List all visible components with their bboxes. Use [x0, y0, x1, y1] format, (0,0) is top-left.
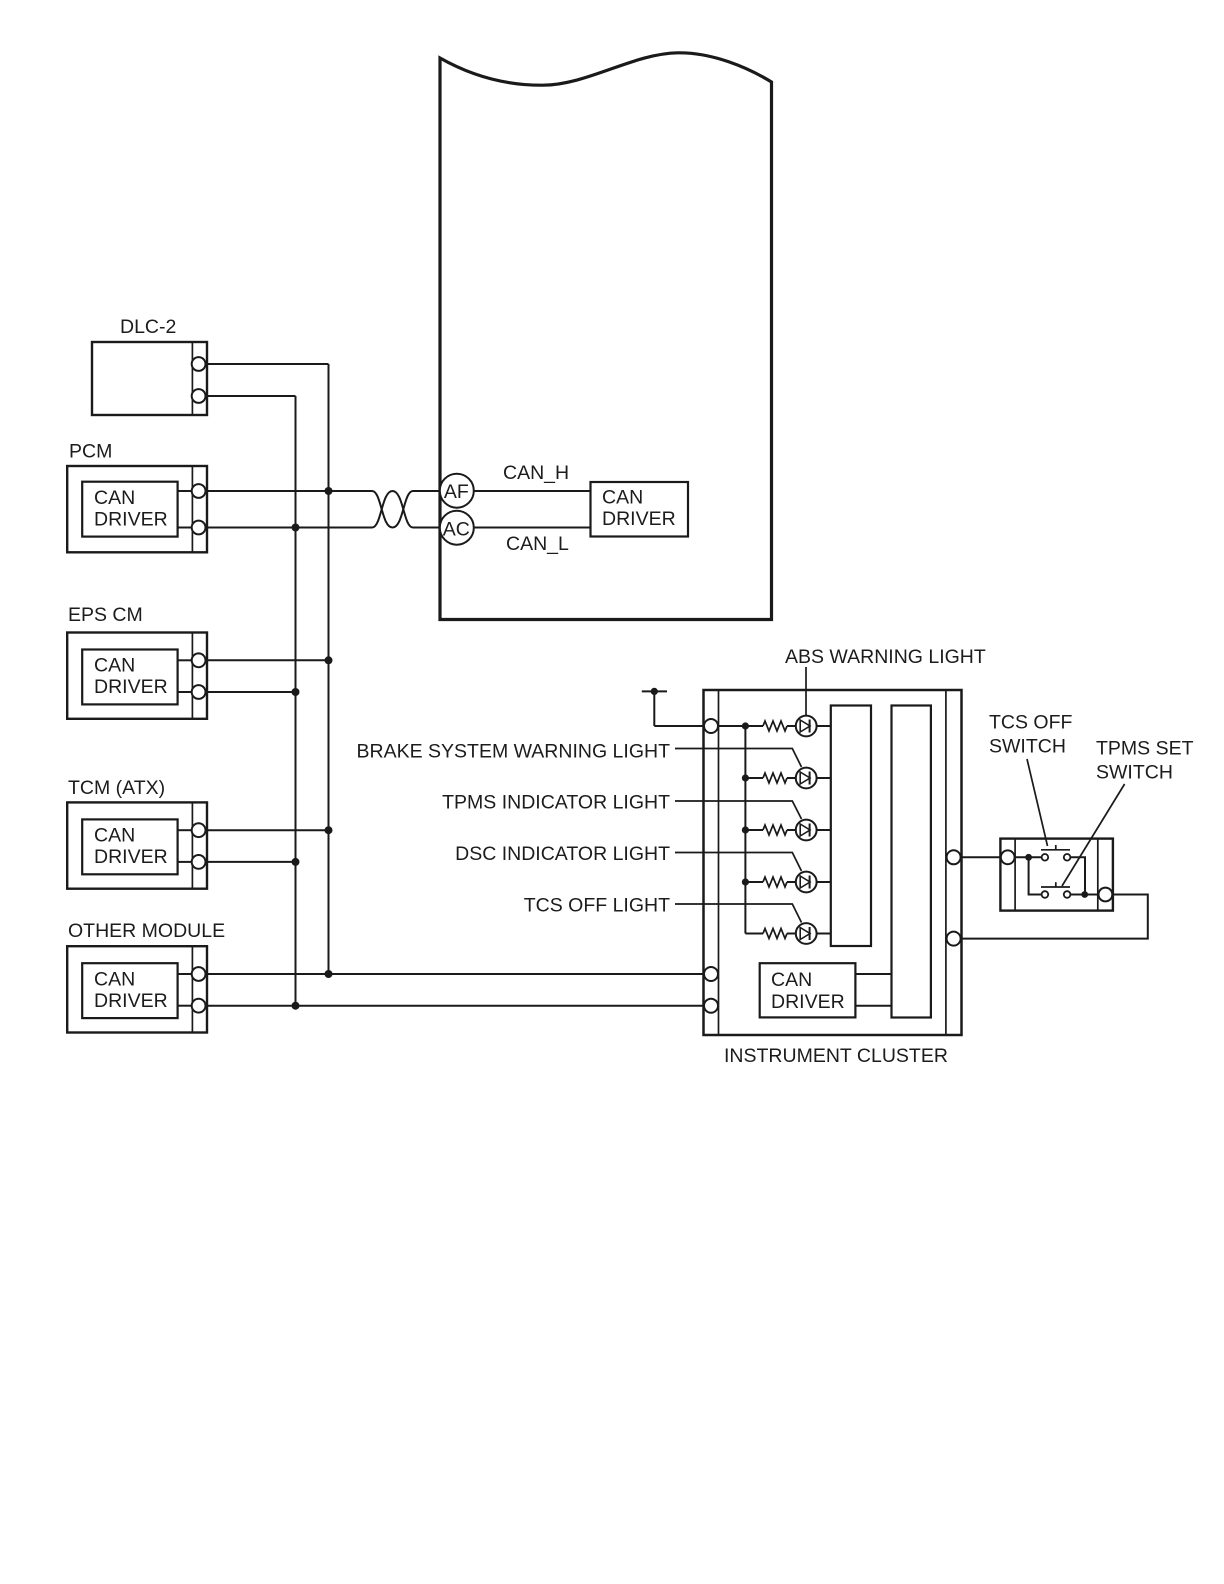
branch wire TCS OFF [745, 933, 763, 935]
LED brake system warning light [787, 768, 831, 789]
svg-text:SWITCH: SWITCH [989, 736, 1066, 758]
resistor (DSC) [763, 877, 787, 887]
svg-text:DSC INDICATOR LIGHT: DSC INDICATOR LIGHT [455, 843, 670, 865]
svg-text:DRIVER: DRIVER [94, 676, 168, 698]
TCS/TPMS switch box [1000, 839, 1113, 911]
instrument cluster box [704, 690, 962, 1035]
terminal AC [440, 511, 474, 545]
svg-text:CAN_H: CAN_H [503, 462, 569, 484]
svg-text:DRIVER: DRIVER [94, 846, 168, 868]
wire OTHER MODULE CAN_H to instrument cluster [206, 973, 761, 975]
wire TCM to CAN_L bus [206, 861, 296, 863]
switch box connector circle right [1099, 888, 1113, 902]
switch box connector circle left [1001, 850, 1015, 864]
DLC-2 connector box [92, 342, 207, 415]
resistor (ABS) [763, 721, 787, 731]
wire left dot down to TPMS switch [1029, 857, 1042, 894]
display panel rect 2 [892, 706, 931, 1018]
junction: CAN_L bus / PCM row [292, 524, 300, 532]
leader TCS OFF SWITCH [1027, 759, 1048, 846]
LED TPMS indicator light [787, 820, 831, 841]
PCM module [67, 466, 207, 552]
CAN_L bus vertical wire [295, 396, 297, 1006]
svg-text:DRIVER: DRIVER [94, 990, 168, 1012]
lamp bus vertical wire [744, 726, 746, 934]
junction on lamp bus (TPMS) [742, 826, 749, 833]
branch wire DSC [745, 881, 763, 883]
TCS OFF switch [1041, 845, 1070, 861]
svg-text:EPS CM: EPS CM [68, 604, 143, 626]
junction right (switch box) [1081, 891, 1088, 898]
svg-text:AF: AF [444, 481, 469, 503]
svg-text:CAN: CAN [94, 969, 135, 991]
wire DLC-2 pin1 to CAN_H bus [206, 363, 329, 365]
svg-text:OTHER MODULE: OTHER MODULE [68, 920, 225, 942]
cluster connector circle: to TCS switch [947, 850, 961, 864]
svg-text:CAN: CAN [771, 969, 812, 991]
LED DSC indicator light [787, 872, 831, 893]
svg-text:AC: AC [443, 518, 470, 540]
cluster connector circle: CAN_L [704, 999, 718, 1013]
svg-text:DRIVER: DRIVER [771, 991, 845, 1013]
svg-text:BRAKE SYSTEM WARNING LIGHT: BRAKE SYSTEM WARNING LIGHT [357, 740, 671, 762]
junction: CAN_H bus / PCM row [325, 487, 333, 495]
leader TPMS [675, 801, 802, 819]
svg-text:TPMS INDICATOR LIGHT: TPMS INDICATOR LIGHT [442, 791, 670, 813]
svg-text:CAN: CAN [94, 487, 135, 509]
svg-text:CAN: CAN [94, 655, 135, 677]
svg-text:PCM: PCM [69, 441, 112, 463]
OTHER MODULE box [67, 946, 207, 1032]
wire to TCS switch [1008, 856, 1042, 858]
TPMS SET switch [1041, 882, 1070, 898]
wire switch return loop [954, 895, 1148, 939]
wire TCM to CAN_H bus [206, 829, 329, 831]
leader ABS [805, 667, 807, 715]
wire TPMS switch to connector [1070, 894, 1105, 896]
label TPMS SET SWITCH [1096, 738, 1194, 784]
junction: CAN_H bus / OTHER row [325, 970, 333, 978]
branch wire TPMS [745, 829, 763, 831]
leader BRAKE [675, 749, 802, 768]
svg-text:ABS WARNING LIGHT: ABS WARNING LIGHT [785, 646, 986, 668]
wavy-top module box [440, 53, 772, 620]
display panel rect 1 [831, 706, 871, 947]
svg-text:DLC-2: DLC-2 [120, 316, 176, 338]
twisted pair symbol [372, 491, 441, 528]
junction: CAN_H bus / TCM row [325, 826, 333, 834]
junction: CAN_L bus / OTHER row [292, 1002, 300, 1010]
svg-text:CAN_L: CAN_L [506, 533, 569, 555]
TCM module [67, 802, 207, 888]
junction: CAN_L bus / EPS row [292, 688, 300, 696]
resistor (TCS OFF) [763, 929, 787, 939]
CAN_H bus vertical wire [328, 364, 330, 974]
EPS CM module [67, 633, 207, 719]
wire cluster to switch box [954, 856, 1008, 858]
wire AF to CAN driver [473, 490, 591, 492]
wire DLC-2 pin2 to CAN_L bus [206, 395, 296, 397]
wire cluster CAN driver to panel (H) [855, 973, 891, 975]
junction: CAN_L bus / TCM row [292, 858, 300, 866]
LED TCS OFF light [787, 923, 831, 944]
junction: CAN_H bus / EPS row [325, 656, 333, 664]
junction left (switch box) [1025, 854, 1032, 861]
label TCS OFF SWITCH [989, 712, 1072, 758]
wire EPS CM to CAN_L bus [206, 691, 296, 693]
svg-text:TPMS SET: TPMS SET [1096, 738, 1194, 760]
wire AC to CAN driver [473, 527, 591, 529]
leader TPMS SET SWITCH [1062, 784, 1125, 886]
CAN driver (instrument cluster) [760, 963, 856, 1017]
svg-text:INSTRUMENT CLUSTER: INSTRUMENT CLUSTER [724, 1045, 948, 1067]
wire CAN_L: PCM to AC terminal [206, 527, 373, 529]
cluster connector circle: CAN_H [704, 967, 718, 981]
ground symbol [642, 688, 708, 726]
wire TCS switch to right column [1070, 857, 1085, 894]
cluster connector circle: switch return [947, 932, 961, 946]
resistor (TPMS) [763, 825, 787, 835]
LED ABS warning light [787, 716, 831, 737]
svg-text:TCS OFF: TCS OFF [989, 712, 1072, 734]
junction on lamp bus (BRAKE) [742, 774, 749, 781]
svg-text:TCM (ATX): TCM (ATX) [68, 777, 165, 799]
leader TCS OFF [675, 904, 802, 923]
leader DSC [675, 853, 802, 872]
branch wire ABS [719, 725, 764, 727]
svg-text:CAN: CAN [94, 825, 135, 847]
junction on lamp bus (DSC) [742, 878, 749, 885]
cluster connector circle: ground [704, 719, 718, 733]
branch wire BRAKE [745, 777, 763, 779]
resistor (BRAKE) [763, 773, 787, 783]
terminal AF [440, 474, 474, 508]
wire EPS CM to CAN_H bus [206, 659, 329, 661]
svg-text:SWITCH: SWITCH [1096, 762, 1173, 784]
wire OTHER MODULE CAN_L to instrument cluster [206, 1005, 761, 1007]
svg-text:CAN: CAN [602, 487, 643, 509]
junction on lamp bus (ABS) [742, 722, 749, 729]
svg-text:DRIVER: DRIVER [94, 509, 168, 531]
wire CAN_H: PCM to AF terminal [206, 490, 373, 492]
svg-text:DRIVER: DRIVER [602, 508, 676, 530]
wire cluster CAN driver to panel (L) [855, 1005, 891, 1007]
svg-text:TCS OFF LIGHT: TCS OFF LIGHT [524, 894, 670, 916]
CAN driver (wavy box) [591, 482, 689, 537]
